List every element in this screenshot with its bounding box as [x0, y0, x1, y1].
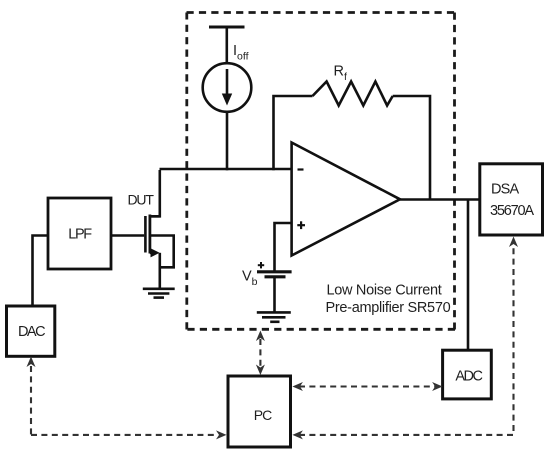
DUT drain wire — [150, 170, 160, 216]
svg-text:LPF: LPF — [68, 227, 92, 243]
wire battery to ground — [273, 277, 276, 313]
DUT source wire down — [159, 253, 162, 289]
supply rail bar — [209, 26, 245, 29]
arrowhead up to SR570 box — [256, 331, 265, 342]
ground below battery — [257, 312, 291, 321]
op-amp minus sign — [298, 168, 304, 170]
arrowhead into PC left — [216, 430, 227, 439]
svg-text:Ioff: Ioff — [233, 43, 249, 63]
svg-text:Low Noise Current: Low Noise Current — [327, 283, 442, 299]
wire LPF to DUT gate — [111, 234, 144, 237]
LPF box — [48, 198, 111, 269]
op-amp plus sign — [297, 221, 305, 229]
DUT source stub with arrow — [150, 248, 160, 257]
dashed link DAC to bottom bus — [30, 366, 32, 435]
wire LPF to DAC — [33, 236, 49, 307]
summing node wire — [160, 168, 292, 171]
battery Vb — [257, 272, 292, 277]
arrowhead into DAC — [27, 357, 36, 368]
svg-text:Rf: Rf — [334, 64, 347, 84]
arrowhead into ADC left — [432, 382, 443, 391]
label DSA 35670A — [490, 182, 534, 219]
resistor Rf — [313, 82, 393, 106]
feedback wire left — [274, 96, 313, 170]
PC box — [228, 376, 291, 447]
battery Vb plus sign — [258, 262, 264, 268]
wire supply bar to current source — [226, 27, 229, 64]
DUT gate bar — [144, 216, 147, 253]
bottom bus DAC to PC — [31, 434, 217, 436]
current source arrow — [222, 69, 232, 106]
arrowhead into PC right (from ADC link) — [292, 382, 303, 391]
DUT body wire — [150, 236, 174, 268]
ground DUT — [143, 289, 175, 298]
svg-text:DUT: DUT — [128, 192, 155, 208]
svg-text:ADC: ADC — [455, 368, 482, 384]
dashed double arrow PC to ADC — [299, 385, 435, 387]
svg-text:DSA: DSA — [491, 182, 520, 198]
plus input wire — [275, 223, 292, 271]
svg-text:35670A: 35670A — [490, 203, 534, 219]
arrowhead into PC right (bottom bus) — [292, 430, 303, 439]
wire output node to ADC — [467, 200, 470, 351]
svg-text:Pre-amplifier SR570: Pre-amplifier SR570 — [326, 300, 451, 316]
ADC box — [443, 350, 492, 399]
arrowhead up into DSA bottom — [509, 237, 518, 248]
DAC box — [7, 306, 55, 356]
dashed bus PC to DSA — [299, 244, 514, 435]
label Low Noise Current Pre-amplifier SR570 — [326, 283, 451, 317]
DUT channel bar — [148, 215, 151, 254]
current source Ioff circle — [203, 63, 252, 112]
op-amp output wire — [400, 198, 480, 201]
op-amp U1 — [292, 143, 400, 256]
DUT drain stub — [150, 215, 160, 218]
svg-text:PC: PC — [254, 407, 272, 423]
feedback wire right — [393, 96, 430, 200]
wire current source to summing node — [226, 112, 229, 171]
dashed double arrow PC to SR570 — [259, 339, 261, 367]
arrowhead down to PC top — [256, 365, 265, 376]
svg-text:DAC: DAC — [18, 324, 45, 340]
svg-text:Vb: Vb — [242, 269, 258, 289]
DSA box — [480, 164, 543, 235]
dashed enclosure Low Noise Current Pre-amplifier SR570 — [187, 13, 456, 330]
